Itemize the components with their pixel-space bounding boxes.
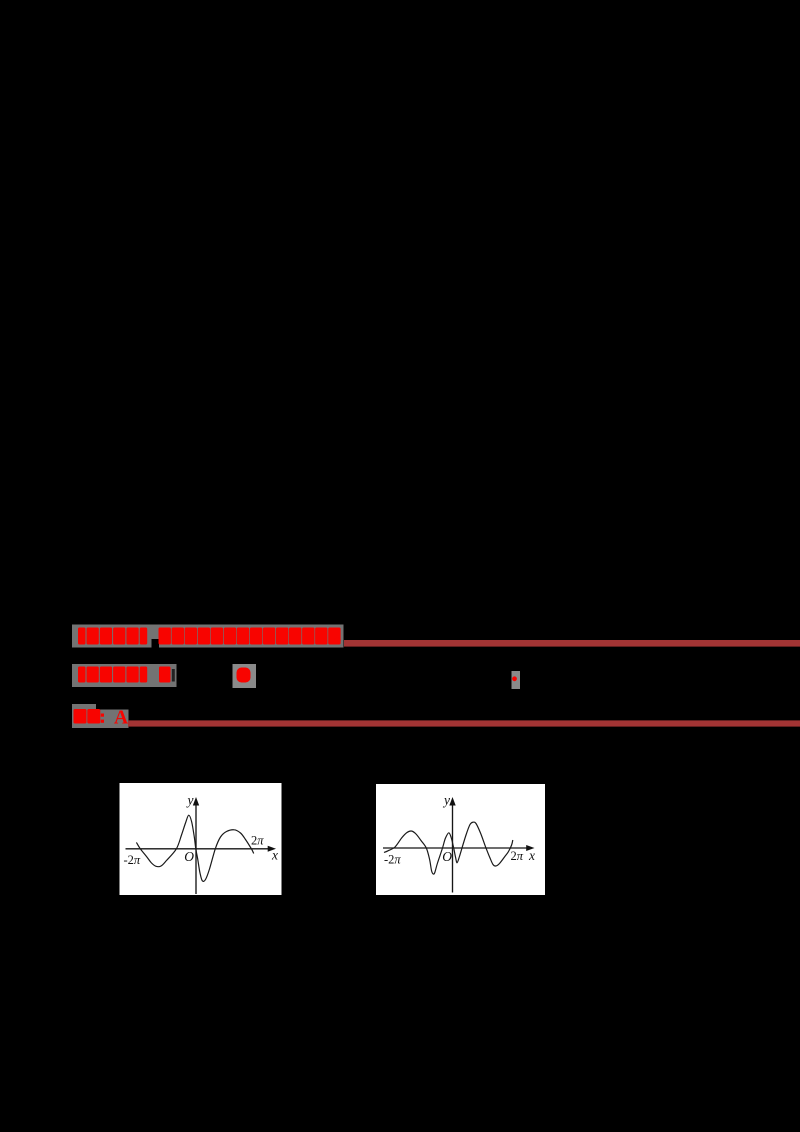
line1 red sentence — [159, 628, 171, 645]
line3 red answer text — [74, 709, 87, 724]
line2 grey highlight band — [72, 664, 177, 687]
left graph white box — [120, 783, 282, 895]
line1 grey highlight band — [72, 625, 344, 648]
svg-text:A: A — [114, 708, 128, 729]
svg-text:y: y — [186, 793, 194, 808]
line1 red bracket label — [78, 628, 86, 645]
line2 period grey patch — [512, 671, 521, 689]
svg-text:y: y — [442, 793, 450, 808]
right graph white box — [376, 784, 545, 895]
line2 red period — [512, 676, 517, 681]
line1 black notch after label — [152, 639, 160, 648]
line2 red bracket label — [78, 667, 86, 683]
right graph curve — [384, 822, 513, 874]
svg-text:2π: 2π — [251, 834, 264, 848]
svg-text:O: O — [442, 849, 452, 864]
svg-text:-2π: -2π — [384, 853, 401, 867]
line1 underline — [344, 640, 800, 647]
line3 underline — [128, 720, 800, 726]
right graph x arrowhead — [526, 845, 534, 851]
svg-text:2π: 2π — [511, 849, 524, 863]
line2 red blob char — [237, 668, 251, 683]
left graph x arrowhead — [268, 846, 276, 852]
line2 red char after label — [159, 667, 171, 683]
line3 grey highlight band — [72, 704, 96, 711]
right graph axes — [383, 800, 531, 893]
right graph y arrowhead — [449, 797, 455, 806]
svg-text:O: O — [184, 849, 194, 864]
left graph curve — [136, 815, 253, 881]
line2 faint dark glyph on grey — [172, 669, 175, 682]
svg-text:x: x — [271, 848, 278, 863]
svg-text:-2π: -2π — [124, 853, 141, 867]
left graph y arrowhead — [193, 797, 199, 806]
left graph axes — [126, 800, 273, 894]
line2 middle grey patch — [233, 664, 257, 688]
svg-text:x: x — [528, 848, 535, 863]
